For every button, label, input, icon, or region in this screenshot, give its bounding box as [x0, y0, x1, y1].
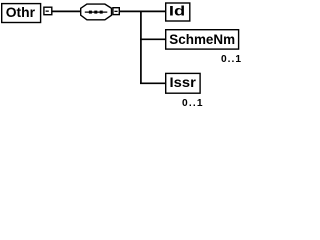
svg-text:0..1: 0..1 [221, 54, 241, 65]
svg-text:Issr: Issr [170, 74, 197, 90]
svg-text:Othr: Othr [6, 4, 36, 20]
svg-text:SchmeNm: SchmeNm [169, 31, 235, 47]
svg-text:Id: Id [169, 3, 185, 19]
svg-text:0..1: 0..1 [182, 98, 203, 109]
